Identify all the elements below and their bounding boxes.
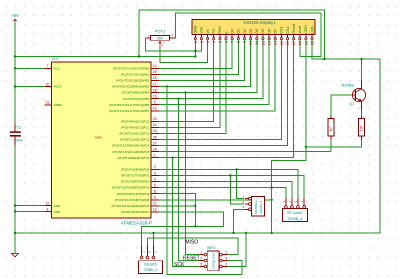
junction ISP gnd: [245, 232, 247, 234]
wire PB1 to display D1: [159, 40, 239, 75]
wire emitter to resistor: [361, 110, 363, 115]
transistor Q1 BC548: [352, 88, 365, 101]
wire PC3 to display pin 15: [159, 40, 282, 140]
wire PB2 to display D2: [159, 40, 245, 81]
junction GND22: [14, 204, 16, 206]
svg-text:27: 27: [153, 141, 157, 145]
wire PD2 to BT pin2: [159, 182, 292, 198]
svg-text:ATMEGA328-P: ATMEGA328-P: [121, 221, 152, 226]
svg-text:LED+: LED+: [304, 24, 308, 33]
wire PB6 to display D6: [159, 40, 269, 105]
wire reset net PC6 to display Reset: [159, 40, 294, 158]
svg-text:3: 3: [154, 171, 156, 175]
junction +5V/VLS: [14, 55, 16, 57]
svg-text:100n: 100n: [15, 138, 23, 142]
wire POT1 pin1 to display Vdd: [146, 38, 202, 51]
svg-text:15: 15: [153, 70, 157, 74]
wire DS1820 pin2 up: [147, 238, 149, 246]
svg-text:AVCC: AVCC: [54, 85, 63, 89]
svg-text:20: 20: [46, 82, 50, 86]
junction outer wrap at VLS rail: [138, 55, 140, 57]
junction DS1820 gnd: [152, 232, 154, 234]
wire PC5 to base resistor: [159, 151, 331, 153]
svg-text:(PCINT7/XTAL2/TOSC2)PB7: (PCINT7/XTAL2/TOSC2)PB7: [109, 109, 149, 113]
svg-text:8: 8: [47, 207, 49, 211]
svg-text:9: 9: [154, 101, 156, 105]
svg-text:BC548: BC548: [342, 83, 354, 87]
svg-text:RS232Con: RS232Con: [254, 199, 258, 214]
svg-text:22: 22: [46, 201, 50, 205]
svg-text:LED-: LED-: [310, 24, 314, 33]
wire AVCC pin20: [15, 86, 45, 88]
wire emitter resistor to display LED+: [306, 40, 362, 147]
wire RS232 pin3 to GND rail: [234, 209, 246, 233]
wire GND pin22: [15, 205, 45, 207]
wire GND bottom rail: [15, 59, 380, 233]
svg-text:CONN_3X2: CONN_3X2: [212, 253, 216, 270]
svg-text:13: 13: [153, 208, 157, 212]
svg-text:12: 12: [153, 202, 157, 206]
wire PD3 to BT pin1: [159, 188, 286, 198]
svg-text:3: 3: [200, 256, 202, 260]
svg-text:14: 14: [153, 64, 157, 68]
wire VCC pin7: [15, 67, 45, 69]
svg-text:4: 4: [226, 256, 228, 260]
svg-text:VLS: VLS: [51, 57, 59, 61]
svg-text:16: 16: [153, 76, 157, 80]
resistor R1 emitter: [359, 118, 365, 136]
svg-text:RESET: RESET: [183, 255, 200, 261]
svg-text:CS2: CS2: [286, 26, 290, 33]
wire PD5 branch: [159, 199, 272, 201]
svg-text:11: 11: [153, 196, 157, 200]
junction PD5 column: [270, 199, 272, 201]
svg-text:15: 15: [279, 40, 284, 45]
wire PC2 to display pin 6: [159, 40, 226, 134]
potentiometer POT1 50K: [151, 35, 170, 40]
junction GND rail: [14, 232, 16, 234]
svg-text:CONN_3: CONN_3: [259, 200, 263, 213]
junction PD6 column: [194, 205, 196, 207]
svg-text:6: 6: [154, 190, 156, 194]
svg-text:2: 2: [226, 250, 228, 254]
junction RS232 gnd: [232, 232, 234, 234]
ground: [12, 254, 19, 257]
svg-text:25: 25: [153, 129, 157, 133]
display header DISPLAY1 KS0108 body: [192, 19, 315, 34]
junction BT1 branch: [270, 186, 272, 188]
wire DS1820 pin3 to GND rail: [152, 233, 154, 246]
svg-text:12: 12: [260, 40, 265, 45]
svg-text:(PCINT4/MISO)PB4: (PCINT4/MISO)PB4: [122, 91, 150, 95]
svg-text:AREF: AREF: [54, 103, 62, 107]
wire PB5 to display D5: [159, 40, 263, 99]
wire PD0 RXD to RS232 pin1 and BT pin3: [159, 169, 298, 197]
junction GND rail BT column: [270, 232, 272, 234]
svg-text:(PCINT10/ADC2)PC2: (PCINT10/ADC2)PC2: [119, 132, 149, 136]
wire ISP pin6 to GND rail: [228, 233, 246, 267]
svg-text:1: 1: [154, 154, 156, 158]
connector BT-con#1 pins: [284, 206, 287, 209]
wire PD1 TXD to RS232 pin2 and BT pin4: [159, 176, 304, 198]
wire display LED- to transistor collector line: [312, 40, 380, 59]
mcu right pins: [151, 67, 159, 69]
svg-text:MISO: MISO: [185, 239, 198, 245]
connector DS1820 CONN_3 body: [139, 261, 163, 274]
svg-text:D1: D1: [237, 29, 241, 34]
svg-text:18: 18: [297, 40, 302, 45]
wire PB3 to display D3: [159, 40, 251, 87]
svg-text:KS0108 Display1: KS0108 Display1: [243, 20, 276, 25]
junction display pin1 at pot line: [194, 50, 196, 52]
svg-text:(PCINT18/INT0)PD2: (PCINT18/INT0)PD2: [121, 180, 150, 184]
wire PB0 to display D0: [159, 40, 232, 69]
svg-text:(PCINT6/XTAL1/TOSC1)PB6: (PCINT6/XTAL1/TOSC1)PB6: [109, 103, 149, 107]
wire PC1 to display pin 5: [159, 40, 220, 128]
svg-text:4: 4: [154, 177, 156, 181]
svg-text:6: 6: [226, 262, 228, 266]
svg-text:CONN_4: CONN_4: [288, 217, 303, 221]
svg-text:(PCINT8/ADC0)PC0: (PCINT8/ADC0)PC0: [121, 119, 149, 123]
junction MOSI: [166, 85, 168, 87]
wire ISP pin2 to DS1820 vdd: [148, 238, 239, 255]
svg-text:(PCINT13/SCL/ADC5)PC5: (PCINT13/SCL/ADC5)PC5: [113, 150, 150, 154]
svg-text:ISP1: ISP1: [207, 245, 216, 250]
svg-text:(PCINT3/OC2A/MOSI)PB3: (PCINT3/OC2A/MOSI)PB3: [112, 85, 149, 89]
junction VCC: [14, 67, 16, 69]
svg-text:20: 20: [310, 40, 315, 45]
svg-text:1: 1: [200, 250, 202, 254]
svg-text:num: num: [95, 136, 102, 140]
svg-text:10: 10: [153, 107, 157, 111]
svg-text:Vout: Vout: [298, 26, 302, 33]
wire MISO to ISP pin1: [186, 93, 200, 255]
svg-text:(PCINT2/OC1B/SS)PB2: (PCINT2/OC1B/SS)PB2: [116, 79, 149, 83]
svg-text:SCK: SCK: [174, 262, 185, 268]
svg-text:(PCINT21/OC0B/T1)PD5: (PCINT21/OC0B/T1)PD5: [115, 198, 150, 202]
svg-text:BT-con#1: BT-con#1: [287, 211, 302, 215]
svg-text:(PCINT5/SCK)PB5: (PCINT5/SCK)PB5: [123, 97, 149, 101]
wire base: [331, 95, 353, 115]
svg-text:(PCINT14/RESET)PC6: (PCINT14/RESET)PC6: [117, 156, 149, 160]
svg-text:D5: D5: [261, 29, 265, 34]
svg-text:(PCINT9/ADC1)PC1: (PCINT9/ADC1)PC1: [121, 126, 149, 130]
svg-text:D4: D4: [255, 29, 259, 34]
svg-text:5: 5: [154, 183, 156, 187]
wire MOSI to ISP pin4: [167, 87, 242, 275]
svg-text:26: 26: [153, 135, 157, 139]
junction display pin1 at VLS rail: [194, 55, 196, 57]
wire PD6 to distribution column: [159, 205, 196, 207]
svg-text:50K: 50K: [157, 37, 164, 41]
junction LED+ node: [305, 146, 307, 148]
connector BT-con#1 CONN_4 body: [283, 209, 308, 222]
junction reset branch: [171, 157, 173, 159]
svg-text:19: 19: [303, 40, 308, 45]
svg-text:10: 10: [248, 40, 253, 45]
junction AVCC: [14, 85, 16, 87]
svg-text:+5V: +5V: [11, 13, 19, 18]
svg-text:23: 23: [153, 117, 157, 121]
svg-text:D3: D3: [249, 29, 253, 34]
svg-text:Q1: Q1: [349, 102, 354, 106]
svg-text:18: 18: [153, 88, 157, 92]
svg-text:CONN_3: CONN_3: [144, 268, 158, 272]
connector ISP1 CONN_3X2 body: [207, 251, 219, 271]
svg-text:7: 7: [47, 64, 49, 68]
svg-text:D7: D7: [274, 29, 278, 34]
svg-text:Vdd: Vdd: [200, 27, 204, 34]
wire VLS rail: [15, 56, 195, 58]
svg-text:(PCINT23/AIN1)PD7: (PCINT23/AIN1)PD7: [121, 210, 150, 214]
svg-text:13: 13: [267, 40, 272, 45]
svg-text:19: 19: [153, 95, 157, 99]
svg-text:(PCINT11/ADC3)PC3: (PCINT11/ADC3)PC3: [120, 138, 150, 142]
wire display GND pin1 to VLS rail: [194, 40, 196, 57]
svg-text:Vo: Vo: [206, 29, 210, 33]
junction GND8: [14, 210, 16, 212]
wire outer wrap VLS to LED- line: [139, 10, 324, 59]
wire PB4 to display D4: [159, 40, 257, 93]
junction MISO: [184, 91, 186, 93]
svg-text:16: 16: [285, 40, 290, 45]
svg-text:POT1: POT1: [155, 29, 166, 34]
svg-text:GND: GND: [54, 204, 62, 208]
svg-text:(PCINT17/TXD)PD1: (PCINT17/TXD)PD1: [121, 174, 149, 178]
capacitor C1: [14, 124, 16, 132]
svg-text:D0: D0: [231, 29, 235, 34]
svg-text:(PCINT16/RXD)PD0: (PCINT16/RXD)PD0: [121, 168, 149, 172]
svg-text:(PCINT12/SDA/ADC4)PC4: (PCINT12/SDA/ADC4)PC4: [112, 144, 149, 148]
svg-text:Reset: Reset: [292, 24, 296, 34]
wire POT1 wiper to display Vo: [160, 40, 208, 63]
svg-text:(PCINT0/CLKO/ICP1)PB0: (PCINT0/CLKO/ICP1)PB0: [113, 66, 149, 70]
wire PB7 to display D7: [159, 40, 275, 111]
wire LED+ node down to GND column: [272, 147, 306, 233]
svg-text:4k7: 4k7: [329, 126, 333, 131]
svg-text:24: 24: [153, 123, 157, 127]
svg-text:CS1: CS1: [280, 26, 284, 33]
svg-text:2: 2: [154, 165, 156, 169]
junction PD7 joins DS column: [194, 225, 196, 227]
connector DS1820 pins: [140, 256, 143, 259]
mcu U1 ATMEGA328-P body: [52, 62, 152, 218]
wire +5V vertical rail lower: [14, 145, 16, 253]
junction collector: [360, 58, 362, 60]
svg-text:22R: 22R: [360, 125, 364, 132]
svg-text:C1: C1: [17, 125, 22, 129]
wire SCK to ISP pin3: [178, 99, 199, 261]
svg-text:21: 21: [46, 101, 50, 105]
svg-text:D2: D2: [243, 29, 247, 34]
wire collector: [361, 59, 363, 81]
junction SCK: [177, 98, 179, 100]
wire RESET to ISP pin5: [173, 158, 200, 267]
junction outer wrap: [323, 58, 325, 60]
svg-text:DS1820: DS1820: [144, 262, 156, 266]
display pins 1-20: [194, 34, 196, 37]
svg-text:17: 17: [291, 40, 296, 45]
svg-text:(PCINT1/OC1A)PB1: (PCINT1/OC1A)PB1: [121, 73, 149, 77]
connector RS232 pins: [249, 197, 252, 200]
mcu left pins: [45, 67, 52, 69]
svg-text:GND: GND: [194, 25, 198, 34]
svg-text:17: 17: [153, 82, 157, 86]
svg-text:D6: D6: [267, 29, 271, 34]
svg-text:28: 28: [153, 148, 157, 152]
wire PC0 to display pin 4: [159, 40, 214, 122]
svg-text:GND: GND: [54, 210, 62, 214]
svg-text:(PCINT22/OC0A/AIN0)PD6: (PCINT22/OC0A/AIN0)PD6: [111, 204, 149, 208]
svg-text:RS: RS: [212, 28, 216, 34]
wire GND pin8: [15, 211, 45, 213]
svg-text:(PCINT19/OC2B/INT1)PD3: (PCINT19/OC2B/INT1)PD3: [112, 186, 150, 190]
connector RS232 CONN_3 body: [252, 196, 265, 216]
wire +5V vertical rail upper: [14, 22, 16, 124]
connector ISP1 pins: [204, 253, 207, 256]
svg-text:14: 14: [273, 40, 278, 45]
svg-text:R/W: R/W: [218, 26, 222, 34]
svg-text:VCC: VCC: [54, 67, 61, 71]
resistor R2 base: [328, 118, 334, 136]
wire PD4 to DS1820 column: [142, 194, 196, 246]
svg-text:5: 5: [200, 262, 202, 266]
wire base resistor to PC5 row: [330, 140, 332, 152]
wire PD7 down to DS column: [159, 212, 224, 226]
wire POT1 pin3 inner wrap to display Vout: [175, 13, 321, 56]
svg-text:(PCINT20/XCK/T0)PD4: (PCINT20/XCK/T0)PD4: [117, 192, 150, 196]
wire PC4 to display pin 16: [159, 40, 288, 146]
